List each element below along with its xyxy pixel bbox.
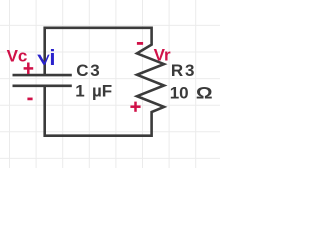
svg-text:Vc: Vc bbox=[7, 47, 28, 66]
svg-text:µF: µF bbox=[92, 82, 112, 101]
svg-text:R3: R3 bbox=[171, 61, 196, 80]
svg-text:Ω: Ω bbox=[196, 84, 213, 102]
svg-text:C3: C3 bbox=[76, 61, 101, 80]
svg-text:1: 1 bbox=[75, 82, 84, 101]
svg-text:Vr: Vr bbox=[154, 45, 171, 64]
svg-text:i: i bbox=[49, 45, 55, 70]
svg-text:10: 10 bbox=[170, 84, 189, 103]
